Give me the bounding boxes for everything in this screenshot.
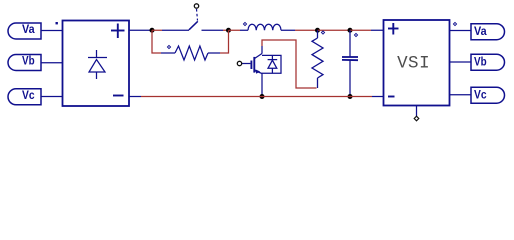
svg-text:Va: Va <box>22 24 35 36</box>
gate bar <box>250 61 252 70</box>
terminal Vb (output tag) <box>471 54 505 70</box>
node C1 bottom on rail <box>348 94 353 99</box>
wire Vb to rectifier <box>41 62 63 64</box>
terminal Vc (input tag) <box>8 89 41 105</box>
wire VSI out a <box>450 30 472 32</box>
svg-text:Vc: Vc <box>474 89 487 101</box>
IGBT Q1 <box>242 46 262 97</box>
wire VSI out b <box>450 61 472 63</box>
node IGBT emitter on bottom rail <box>260 94 265 99</box>
bottom rail: rectifier - to VSI - <box>129 96 141 98</box>
wire J4 to VSI + (red then blue) <box>350 29 371 31</box>
svg-text:Vc: Vc <box>22 90 35 102</box>
wire J2 to inductor (red then blue) <box>229 29 241 31</box>
VSI bottom pin <box>416 106 418 117</box>
wire J3 to J4 (red) <box>318 29 351 31</box>
capacitor C1 top lead <box>349 30 351 57</box>
wire chopper loop (red): R2 bottom to IGBT collector <box>262 40 317 88</box>
switch S1 blade <box>189 21 198 30</box>
diode symbol inside rectifier <box>88 50 107 79</box>
node J3 <box>315 28 320 33</box>
terminal Vc (output tag) <box>471 87 505 103</box>
gate terminal circle <box>237 61 241 65</box>
minus label of VSI <box>388 96 395 98</box>
plus label of rectifier <box>111 24 125 39</box>
svg-text:Va: Va <box>474 26 487 38</box>
channel bar <box>253 57 255 73</box>
wire Va to rectifier <box>41 30 63 32</box>
node J2 <box>226 28 231 33</box>
node J1 <box>150 28 155 33</box>
brake resistor R2 top lead <box>317 30 319 38</box>
marker diamond near R2 <box>321 31 324 34</box>
svg-text:I: I <box>419 53 430 73</box>
gate lead <box>242 63 250 65</box>
wire VSI out c <box>450 94 472 96</box>
wire J1 to switch (red then blue) <box>152 29 162 31</box>
marker diamond near VSI top-right <box>453 22 456 25</box>
wire Vc to rectifier <box>41 96 63 98</box>
svg-text:Vb: Vb <box>22 55 35 67</box>
svg-text:Vb: Vb <box>474 56 487 68</box>
plus label of VSI <box>388 23 399 35</box>
marker square near rectifier top-left <box>56 22 58 24</box>
minus label of rectifier <box>113 95 124 97</box>
capacitor C1 bottom lead <box>349 60 351 97</box>
terminal Va (output tag) <box>471 24 505 40</box>
inductor L1 <box>248 24 281 30</box>
resistor R2 zigzag <box>312 38 323 78</box>
marker diamond near L1 <box>243 22 246 25</box>
resistor R1 lead right <box>208 52 220 54</box>
terminal Va (input tag) <box>8 23 41 39</box>
wire rectifier + output (blue) <box>129 29 152 31</box>
VSI bottom pin terminal diamond <box>414 116 419 121</box>
terminal Vb (input tag) <box>8 55 41 71</box>
wire switch right contact to J2 (blue then red) <box>202 29 224 31</box>
node J4 <box>348 28 353 33</box>
resistor R1 lead left <box>161 52 175 54</box>
switch control circle <box>194 4 198 8</box>
resistor R1 zigzag <box>175 46 208 60</box>
rectifier block U1 <box>63 21 130 107</box>
marker diamond near R1 <box>167 45 170 48</box>
switch control dashed line <box>197 9 198 21</box>
wire inductor to J3 (blue then red) <box>281 29 295 31</box>
svg-text:S: S <box>408 53 419 73</box>
VSI block U2 <box>384 20 450 106</box>
diode D1 (antiparallel) frame <box>262 55 281 73</box>
emitter diagonal <box>255 71 263 74</box>
wire resistor to J2 (red) <box>220 30 229 53</box>
marker diamond near C1 <box>354 33 357 36</box>
svg-text:V: V <box>397 53 408 73</box>
emitter lead down to rail <box>261 74 263 97</box>
resistor R2 bottom lead <box>317 78 319 88</box>
collector lead <box>261 46 263 54</box>
capacitor C1 plates <box>342 56 358 58</box>
wire J1 down to resistor branch (red) <box>152 30 161 53</box>
emitter arrow <box>255 69 260 73</box>
